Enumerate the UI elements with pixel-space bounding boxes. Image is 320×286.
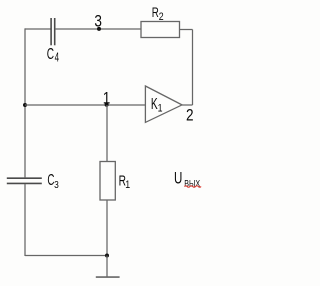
svg-text:1: 1 xyxy=(125,179,130,191)
svg-text:3: 3 xyxy=(54,179,59,191)
wire middle horizontal to op-amp input xyxy=(25,104,145,106)
wire op-amp output xyxy=(182,104,193,106)
resistor R2 xyxy=(141,22,180,38)
resistor R1 xyxy=(100,162,115,201)
svg-text:3: 3 xyxy=(94,12,102,31)
capacitor C3 xyxy=(7,178,42,183)
wire top middle from C4 to R2 xyxy=(55,28,141,30)
wire left vertical upper segment xyxy=(24,28,26,177)
label U_vyh output voltage xyxy=(174,170,201,189)
capacitor C4 xyxy=(51,18,55,45)
ground xyxy=(96,256,120,278)
svg-text:2: 2 xyxy=(159,11,164,23)
svg-text:U: U xyxy=(174,170,182,189)
ground junction dot xyxy=(105,254,109,258)
wire R2 right to corner xyxy=(180,29,193,31)
node 3 junction dot xyxy=(97,27,101,31)
wire R1 upper vertical xyxy=(106,105,108,162)
node 1 junction dot xyxy=(105,103,109,107)
svg-text:C: C xyxy=(47,45,55,63)
wire right vertical down to output node xyxy=(192,30,194,106)
wire left vertical lower segment xyxy=(24,184,26,256)
svg-text:2: 2 xyxy=(186,106,194,125)
node junction dot on left wire xyxy=(23,103,27,107)
svg-text:1: 1 xyxy=(103,89,111,108)
svg-text:4: 4 xyxy=(55,52,60,65)
op-amp K1 xyxy=(145,86,182,122)
wire R1 lower vertical xyxy=(106,200,108,256)
wire top-left horizontal to C4 xyxy=(25,28,51,30)
svg-text:1: 1 xyxy=(158,103,163,115)
wire bottom horizontal xyxy=(25,255,107,257)
